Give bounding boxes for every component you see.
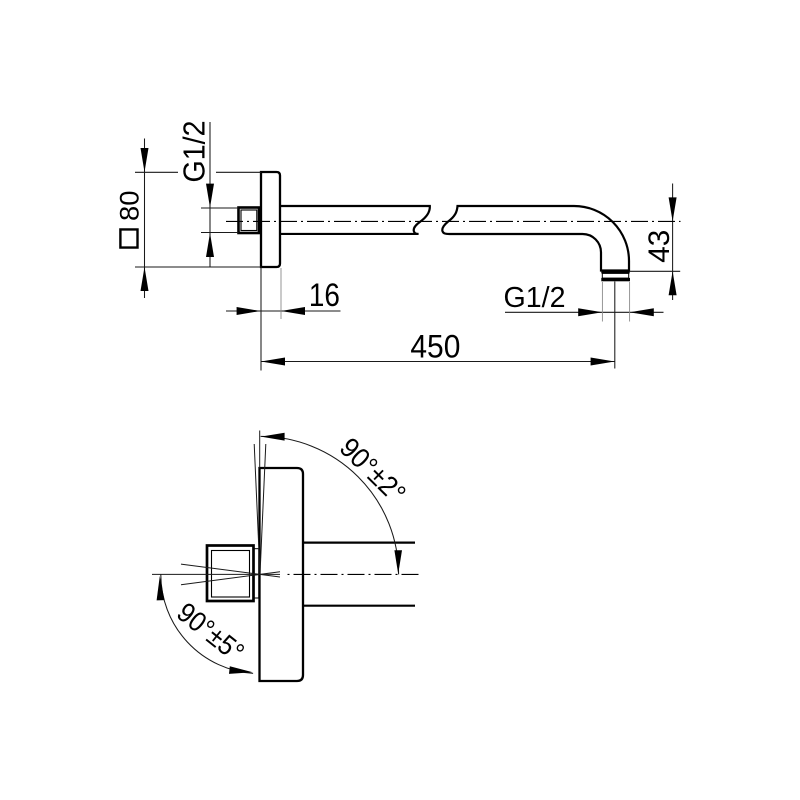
svg-text:80: 80 (115, 191, 145, 222)
svg-text:G1/2: G1/2 (178, 121, 212, 183)
svg-text:G1/2: G1/2 (504, 282, 566, 314)
svg-text:16: 16 (309, 276, 340, 313)
svg-text:450: 450 (410, 328, 460, 364)
svg-text:43: 43 (643, 230, 676, 263)
